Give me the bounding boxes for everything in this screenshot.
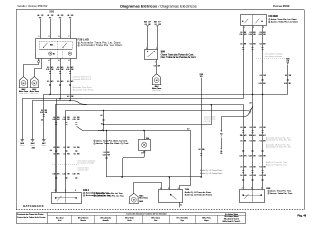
- svg-text:0.5: 0.5: [250, 167, 252, 169]
- svg-text:BR = Marrom: BR = Marrom: [78, 217, 89, 220]
- svg-text:G4.9: G4.9: [31, 142, 35, 145]
- svg-text:2: 2: [269, 22, 270, 24]
- svg-text:0.5: 0.5: [250, 140, 252, 142]
- svg-text:WS: WS: [45, 110, 48, 112]
- svg-text:HATCHBACK: HATCHBACK: [23, 204, 45, 208]
- svg-text:0.35: 0.35: [239, 156, 242, 158]
- svg-text:WS: WS: [67, 117, 70, 119]
- svg-text:Pág. 46: Pág. 46: [297, 214, 306, 217]
- svg-text:0.5: 0.5: [64, 147, 66, 149]
- svg-text:15: 15: [220, 153, 222, 155]
- svg-text:4.5: 4.5: [67, 96, 69, 98]
- svg-text:0.5: 0.5: [64, 117, 66, 119]
- svg-text:Accion. Traba Pta. Lat. Diant.: Accion. Traba Pta. Lat. Diant.: [271, 21, 298, 24]
- svg-text:0.5: 0.5: [47, 67, 49, 69]
- svg-text:0.35: 0.35: [40, 112, 43, 114]
- svg-text:0.5: 0.5: [260, 167, 262, 169]
- svg-text:0.5: 0.5: [285, 75, 287, 77]
- svg-text:WS: WS: [57, 153, 60, 155]
- svg-text:31: 31: [180, 205, 182, 207]
- svg-text:X28: X28: [32, 147, 35, 149]
- svg-text:4.5: 4.5: [50, 150, 52, 152]
- svg-text:X28: X28: [154, 22, 157, 24]
- svg-text:Conector X13 LD / LE: Conector X13 LD / LE: [73, 78, 92, 81]
- svg-text:0.5: 0.5: [67, 81, 69, 83]
- svg-text:0.5: 0.5: [104, 152, 106, 154]
- svg-text:2: 2: [94, 196, 95, 198]
- svg-text:Massa: Massa: [42, 145, 47, 147]
- svg-text:Conector X14: Conector X14: [77, 169, 88, 172]
- svg-text:Corsa 2002: Corsa 2002: [273, 4, 290, 8]
- svg-text:0.5: 0.5: [260, 32, 262, 34]
- svg-text:Marrón: Marrón: [81, 219, 86, 222]
- svg-text:0.35: 0.35: [73, 119, 76, 121]
- svg-text:0.35: 0.35: [249, 156, 252, 158]
- svg-text:0.35: 0.35: [73, 174, 76, 176]
- svg-text:4.5: 4.5: [101, 115, 103, 117]
- svg-text:Inter. Traba de las Puertas de: Inter. Traba de las Puertas de Cont.: [161, 56, 197, 59]
- svg-text:M50: M50: [50, 44, 53, 46]
- svg-text:WS = Branco / Blanco: WS = Branco / Blanco: [224, 216, 238, 218]
- svg-text:Botón Cj. LD Traba Porta: Botón Cj. LD Traba Porta: [200, 172, 223, 175]
- svg-text:0.35: 0.35: [259, 156, 262, 158]
- svg-text:GN = Verde: GN = Verde: [125, 217, 134, 220]
- svg-text:M4.8: M4.8: [22, 88, 26, 91]
- svg-text:0.5: 0.5: [154, 66, 156, 68]
- svg-text:SW = Preto: SW = Preto: [202, 217, 211, 220]
- svg-text:sin alarma antirrobo: sin alarma antirrobo: [77, 162, 94, 165]
- svg-text:Negro: Negro: [204, 219, 209, 222]
- svg-text:WS: WS: [71, 67, 74, 69]
- svg-text:0.35: 0.35: [46, 69, 49, 71]
- svg-text:0.5: 0.5: [250, 44, 252, 46]
- svg-text:Cores dos Circuitos / Colores: Cores dos Circuitos / Colores de los Cir…: [126, 213, 166, 216]
- svg-text:0.5: 0.5: [73, 147, 75, 149]
- svg-text:0.35: 0.35: [239, 34, 242, 36]
- svg-text:0.35: 0.35: [103, 154, 106, 156]
- svg-text:0.5: 0.5: [250, 127, 252, 129]
- svg-text:0.35: 0.35: [52, 174, 55, 176]
- svg-text:0.5: 0.5: [260, 127, 262, 129]
- svg-text:HGN = Verde Cl. / Verde Cl.: HGN = Verde Cl. / Verde Cl.: [223, 221, 241, 223]
- svg-text:0.5: 0.5: [47, 81, 49, 83]
- svg-text:G4.8: G4.8: [20, 142, 24, 145]
- svg-text:2: 2: [242, 188, 243, 190]
- svg-text:0.35: 0.35: [284, 83, 287, 85]
- svg-text:BL = Azul: BL = Azul: [56, 217, 64, 220]
- svg-text:M4.9: M4.9: [32, 88, 36, 91]
- svg-text:Accion. Traba Pta. Diant. Cj.: Accion. Traba Pta. Diant. Cj. Conf.: [96, 142, 129, 145]
- svg-text:G4.7: G4.7: [42, 142, 46, 145]
- svg-text:Amarillo: Amarillo: [103, 219, 109, 222]
- svg-text:X28: X28: [144, 22, 147, 24]
- svg-text:0.5: 0.5: [64, 153, 66, 155]
- svg-text:WS: WS: [71, 81, 74, 83]
- svg-text:0.5: 0.5: [240, 175, 242, 177]
- svg-text:0.5: 0.5: [240, 140, 242, 142]
- svg-text:Accion. Traba Pta. Tras.: Accion. Traba Pta. Tras.: [270, 192, 293, 195]
- svg-text:0.5: 0.5: [57, 67, 59, 69]
- svg-text:0.5: 0.5: [240, 44, 242, 46]
- svg-text:Botão Cj. LD Trava de Porta: Botão Cj. LD Trava de Porta: [185, 191, 212, 194]
- svg-text:4: 4: [49, 60, 50, 62]
- svg-text:0.5: 0.5: [260, 75, 262, 77]
- svg-text:0.35: 0.35: [66, 69, 69, 71]
- svg-text:X28: X28: [49, 10, 54, 14]
- svg-text:1: 1: [39, 36, 40, 38]
- svg-text:0.5: 0.5: [260, 175, 262, 177]
- svg-text:4.5: 4.5: [250, 103, 252, 105]
- svg-text:Accionador Traba Puerta: Accionador Traba Puerta: [73, 88, 95, 91]
- svg-text:8: 8: [69, 60, 70, 62]
- svg-text:WS: WS: [67, 153, 70, 155]
- svg-text:X28: X28: [146, 138, 149, 140]
- svg-text:4.5: 4.5: [187, 129, 189, 131]
- svg-text:WS: WS: [77, 117, 80, 119]
- svg-text:Rojo: Rojo: [181, 220, 185, 222]
- svg-text:con alarma antirrobo: con alarma antirrobo: [265, 55, 282, 58]
- svg-text:0.35: 0.35: [52, 119, 55, 121]
- svg-text:1: 1: [269, 19, 270, 21]
- svg-text:WS: WS: [61, 81, 64, 83]
- svg-text:RT = Vermelho: RT = Vermelho: [177, 217, 188, 220]
- svg-text:0.5: 0.5: [250, 32, 252, 34]
- svg-text:WS: WS: [57, 147, 60, 149]
- svg-text:WS: WS: [57, 117, 60, 119]
- svg-text:Accionador LE Traba Pta. Tras.: Accionador LE Traba Pta. Tras.: [266, 146, 292, 149]
- svg-text:1: 1: [94, 193, 95, 195]
- svg-text:Botón Cj. LD Traba de Puerta: Botón Cj. LD Traba de Puerta: [185, 193, 213, 196]
- svg-text:0.5: 0.5: [53, 153, 55, 155]
- svg-text:F28 RHD: F28 RHD: [268, 16, 278, 18]
- svg-text:X9: X9: [220, 133, 222, 135]
- svg-text:WS: WS: [77, 147, 80, 149]
- svg-text:X28: X28: [240, 135, 243, 137]
- svg-text:0.5: 0.5: [240, 167, 242, 169]
- svg-text:3: 3: [65, 190, 66, 192]
- svg-text:WS: WS: [51, 81, 54, 83]
- svg-text:X28: X28: [259, 135, 262, 137]
- svg-text:WS: WS: [77, 153, 80, 155]
- svg-text:4.5: 4.5: [41, 119, 43, 121]
- svg-text:Mot. Trava: Mot. Trava: [139, 197, 147, 200]
- svg-text:WS: WS: [51, 67, 54, 69]
- svg-text:7: 7: [69, 36, 70, 38]
- svg-text:0.5: 0.5: [73, 117, 75, 119]
- svg-text:0.5: 0.5: [67, 67, 69, 69]
- svg-text:0.5: 0.5: [250, 175, 252, 177]
- svg-text:5: 5: [59, 36, 60, 38]
- svg-text:Control de la Traba de la Puer: Control de la Traba de la Puerta: [17, 216, 46, 219]
- svg-text:Gris: Gris: [154, 219, 157, 222]
- svg-text:X28: X28: [249, 135, 252, 137]
- svg-text:0.5: 0.5: [240, 127, 242, 129]
- svg-text:Acion. Trava Pta. Lat. Diant.: Acion. Trava Pta. Lat. Diant.: [271, 18, 297, 21]
- svg-text:0.5: 0.5: [73, 153, 75, 155]
- svg-text:Acion. Trava Pta. Diant. Cj. C: Acion. Trava Pta. Diant. Cj. Conf.: [96, 139, 128, 142]
- svg-text:1: 1: [268, 190, 269, 192]
- svg-text:0.5: 0.5: [240, 32, 242, 34]
- svg-text:LD / LE: LD / LE: [204, 121, 211, 123]
- svg-text:Versão / Version 5557/02: Versão / Version 5557/02: [17, 4, 48, 8]
- svg-text:30: 30: [101, 124, 103, 126]
- svg-text:0.5: 0.5: [198, 149, 200, 151]
- svg-text:0.5: 0.5: [57, 81, 59, 83]
- svg-text:Botão Cj. LD Trava Porta: Botão Cj. LD Trava Porta: [200, 169, 223, 172]
- svg-text:S64: S64: [161, 50, 166, 53]
- svg-text:1: 1: [155, 61, 156, 63]
- svg-text:3: 3: [49, 36, 50, 38]
- svg-text:0.35: 0.35: [63, 119, 66, 121]
- svg-text:3: 3: [55, 190, 56, 192]
- svg-text:0.5: 0.5: [53, 117, 55, 119]
- svg-text:GE = Amarelo: GE = Amarelo: [100, 217, 111, 220]
- svg-text:0.35: 0.35: [63, 174, 66, 176]
- svg-text:Massa: Massa: [20, 145, 25, 147]
- svg-text:0.35: 0.35: [56, 69, 59, 71]
- svg-text:0.5: 0.5: [41, 110, 43, 112]
- svg-text:0.35: 0.35: [259, 83, 262, 85]
- svg-text:0.5: 0.5: [260, 44, 262, 46]
- svg-text:0.35: 0.35: [259, 34, 262, 36]
- svg-text:2: 2: [221, 136, 222, 138]
- svg-text:Chave Trava das Portas de Cont: Chave Trava das Portas de Cont.: [161, 53, 195, 56]
- svg-text:0.5: 0.5: [53, 147, 55, 149]
- svg-text:4.5: 4.5: [141, 153, 143, 155]
- svg-text:Accionador LD Traba Pta. Tras.: Accionador LD Traba Pta. Tras.: [266, 139, 292, 142]
- svg-text:7 F: 7 F: [158, 22, 160, 24]
- svg-text:Accionador Traba Pta. Lat. Dia: Accionador Traba Pta. Lat. Diant.: [81, 43, 123, 47]
- svg-text:M2: M2: [53, 54, 55, 56]
- svg-text:2: 2: [268, 193, 269, 195]
- svg-text:M4.6: M4.6: [155, 85, 159, 88]
- svg-text:Accionador Traba Pta. Lat. Tra: Accionador Traba Pta. Lat. Tras.: [96, 195, 124, 198]
- svg-text:Acionador Trava Pta. Lat. Tras: Acionador Trava Pta. Lat. Tras.: [96, 192, 123, 195]
- svg-text:Verde: Verde: [127, 219, 131, 222]
- svg-text:WS: WS: [67, 147, 70, 149]
- svg-text:0.35: 0.35: [249, 34, 252, 36]
- svg-text:6: 6: [59, 60, 60, 62]
- svg-text:Botón LD Traba Pta. Tras.: Botón LD Traba Pta. Tras.: [266, 163, 288, 166]
- svg-text:Diagramas Elétricos / Diagrama: Diagramas Elétricos / Diagramas Eléctric…: [120, 5, 197, 9]
- svg-text:0.5: 0.5: [260, 140, 262, 142]
- svg-text:WS: WS: [61, 67, 64, 69]
- svg-text:Controle da Trava de Porta: Controle da Trava de Porta: [17, 213, 44, 216]
